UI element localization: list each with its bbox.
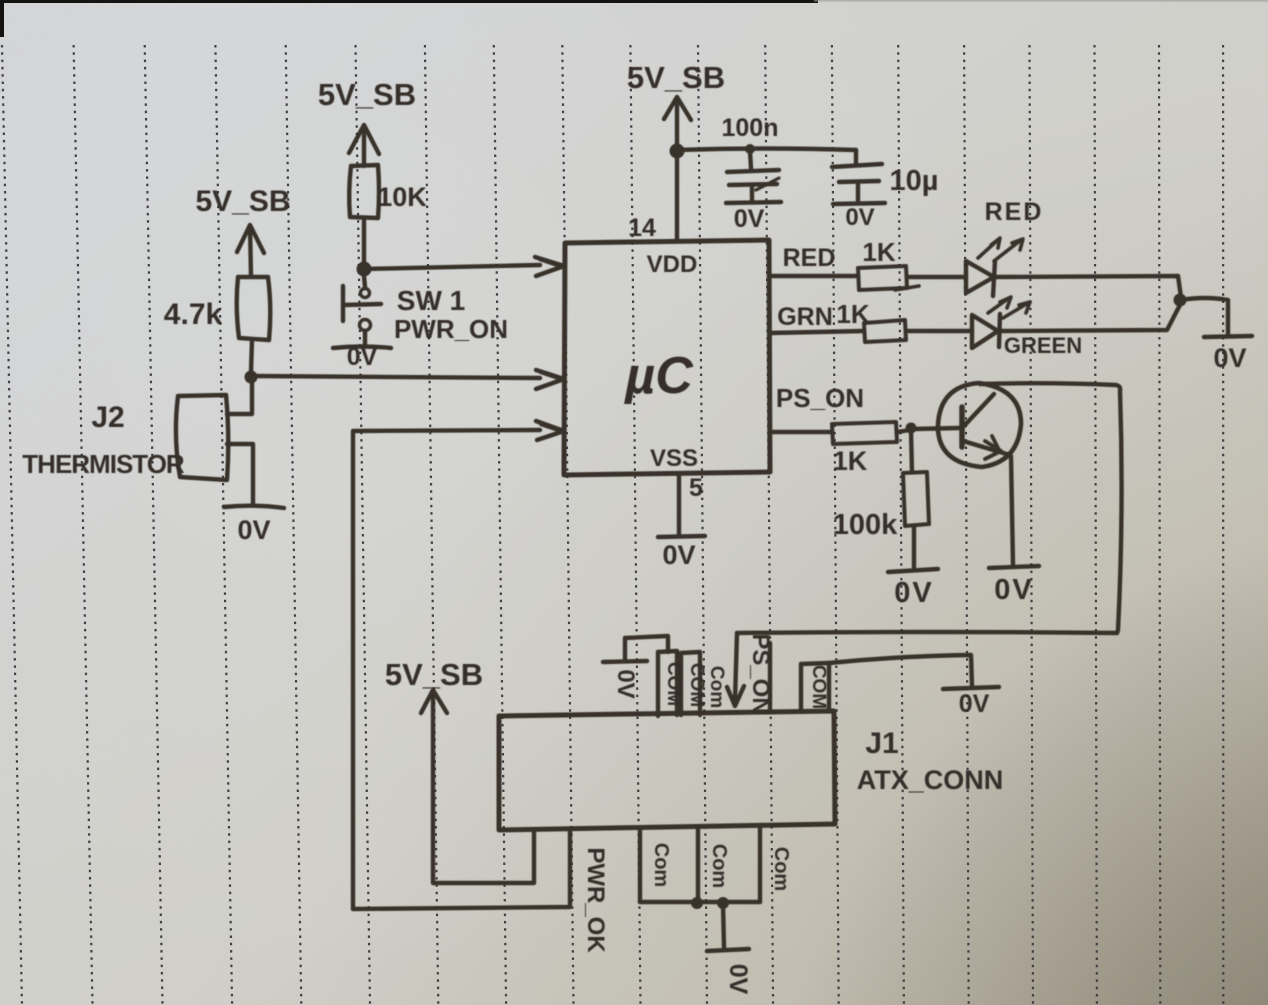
pin Com (J1 bottom, 3rd) — [758, 828, 762, 902]
capacitor C2 10u — [832, 150, 882, 201]
svg-text:0V: 0V — [724, 964, 752, 995]
pin COM (J1 top right) — [801, 663, 829, 712]
node C (VDD rail junction) — [670, 144, 685, 159]
wire uC PS_ON output to R3 — [770, 430, 832, 434]
resistor R4 100k — [903, 472, 929, 526]
pin COM (J1 top, 2nd) — [681, 652, 700, 715]
svg-text:Com: Com — [770, 847, 792, 891]
svg-text:GRN: GRN — [777, 303, 833, 331]
wire node F to Q1 base — [913, 428, 959, 429]
svg-text:SW 1: SW 1 — [397, 285, 465, 316]
wire joining bottom Com pins — [640, 900, 760, 904]
svg-text:1K: 1K — [836, 299, 869, 329]
pin PWR_OK and wire to uC input 3 — [353, 421, 570, 909]
resistor R 10K — [349, 165, 379, 218]
svg-text:RED: RED — [783, 244, 836, 272]
wire J1 top-right COM to ground — [829, 655, 972, 686]
LED D1 RED — [966, 238, 1023, 296]
svg-text:GREEN: GREEN — [1004, 333, 1082, 358]
svg-text:5V_SB: 5V_SB — [385, 657, 483, 692]
svg-text:4.7k: 4.7k — [164, 298, 223, 331]
ground 0V (bottom) — [707, 949, 749, 951]
svg-text:0V: 0V — [1213, 343, 1246, 373]
power symbol 5V_SB (left, above 4.7k) — [237, 225, 264, 276]
svg-text:ATX_CONN: ATX_CONN — [857, 765, 1004, 795]
svg-text:RED: RED — [985, 198, 1044, 226]
wire R2 to LED D2 — [906, 329, 972, 333]
svg-text:1K: 1K — [862, 237, 895, 267]
ground 0V (10u) — [833, 203, 885, 204]
ground 0V (VSS) — [658, 536, 705, 537]
svg-text:Com: Com — [708, 844, 730, 888]
op-amp U1 uC box — [564, 240, 770, 475]
svg-text:COM: COM — [663, 662, 684, 706]
svg-text:5V_SB: 5V_SB — [627, 60, 725, 95]
LED D2 GREEN — [972, 297, 1030, 348]
wire VDD rail to caps — [677, 149, 856, 151]
pin COM (J1 top, 1st) — [658, 651, 677, 716]
wire node C down to uC pin 14 — [675, 151, 679, 241]
wire node H to bottom ground — [723, 903, 724, 947]
svg-text:10K: 10K — [377, 182, 427, 212]
ground 0V (100n) — [726, 202, 781, 203]
svg-text:0V: 0V — [237, 515, 270, 545]
svg-text:0V: 0V — [845, 204, 874, 231]
switch SW1 (pushbutton) — [343, 276, 381, 346]
svg-text:14: 14 — [628, 214, 656, 242]
svg-text:J1: J1 — [865, 727, 898, 760]
svg-text:0V: 0V — [612, 669, 639, 698]
svg-text:0V: 0V — [734, 205, 765, 233]
wire R4 to ground — [912, 526, 916, 568]
ground 0V (J2) — [224, 506, 284, 508]
ground 0V (emitter) — [989, 566, 1039, 568]
svg-text:0V: 0V — [959, 690, 990, 718]
svg-text:5V_SB: 5V_SB — [195, 185, 290, 218]
svg-text:5: 5 — [689, 474, 703, 502]
ground 0V (LED common) — [1204, 336, 1252, 337]
svg-text:0V: 0V — [994, 574, 1033, 606]
svg-text:100n: 100n — [722, 114, 779, 142]
wire R3 to node F — [897, 430, 910, 432]
svg-text:PWR_ON: PWR_ON — [394, 314, 508, 344]
svg-text:1K: 1K — [833, 446, 868, 476]
photo edge top bar — [0, 0, 1268, 37]
node D (100n tap) — [745, 144, 755, 154]
resistor R1 1K (RED) — [858, 266, 919, 290]
node A (thermistor / uC input junction) — [245, 371, 258, 384]
wire node A down to J2 pin 1 — [227, 382, 252, 414]
svg-text:PS_ON: PS_ON — [747, 633, 774, 714]
resistor R3 1K (PS_ON) — [832, 422, 897, 444]
pin PS_ON (J1 top) — [768, 643, 772, 712]
wire 10K bottom to node B — [362, 218, 366, 264]
resistor 4.7k — [237, 277, 271, 340]
svg-text:0V: 0V — [894, 577, 933, 609]
power symbol 5V_SB (top, VDD) — [664, 97, 691, 146]
ground 0V (SW1) — [333, 347, 391, 349]
wire uC GRN output to R2 — [770, 331, 864, 333]
wire Q1 collector to PS_ON pin of J1 — [727, 383, 1122, 706]
node H (bottom ground tap) — [717, 897, 729, 909]
svg-text:VSS: VSS — [650, 445, 698, 472]
svg-text:VDD: VDD — [647, 251, 698, 278]
wire 4.7k bottom to node — [251, 340, 252, 372]
wire LED D1 to right rail — [995, 276, 1181, 297]
svg-text:µC: µC — [623, 347, 694, 405]
wire uC pin 5 VSS to ground — [677, 475, 681, 534]
ground 0V (J1 pin 1) — [603, 636, 668, 662]
pin Com (J1 bottom, 1st) — [638, 829, 642, 902]
ground 0V (100k) — [888, 569, 938, 572]
svg-text:5V_SB: 5V_SB — [318, 77, 416, 112]
svg-text:COM: COM — [686, 663, 707, 707]
connector J1 ATX_CONN body — [499, 711, 835, 830]
pin Com (J1 bottom, 2nd) — [696, 829, 700, 902]
svg-text:J2: J2 — [91, 401, 124, 434]
svg-text:10µ: 10µ — [890, 165, 939, 197]
svg-text:0V: 0V — [662, 540, 695, 570]
power symbol 5V_SB (bottom) — [421, 690, 534, 883]
resistor R2 1K (GRN) — [864, 320, 906, 342]
svg-text:PS_ON: PS_ON — [776, 383, 864, 413]
connector J2 (thermistor) body — [176, 395, 228, 480]
node E (LED common) — [1174, 294, 1187, 307]
wire LED D2 to right rail — [1000, 303, 1181, 331]
wire Q1 emitter to ground — [1011, 456, 1013, 565]
power symbol 5V_SB (SW1 branch, above 10K) — [349, 125, 379, 166]
node B (SW1 / uC input junction) — [357, 262, 372, 277]
svg-text:Com: Com — [650, 843, 672, 887]
wire R1 to LED D1 — [907, 275, 966, 279]
node G (bottom Com junction) — [691, 897, 703, 909]
transistor Q1 (NPN) — [938, 383, 1021, 467]
svg-text:PWR_OK: PWR_OK — [582, 847, 609, 953]
svg-text:COM: COM — [808, 665, 829, 709]
node F (base / 100k junction) — [906, 423, 917, 434]
svg-text:100k: 100k — [833, 509, 898, 541]
wire node E to ground — [1181, 298, 1228, 334]
wire node F down to R4 — [911, 430, 912, 472]
wire uC RED output to R1 — [770, 274, 858, 278]
wire node B to uC input 1 with arrowhead — [364, 257, 564, 276]
wire node A to uC input 2 with arrowhead — [251, 370, 564, 389]
capacitor C1 100n — [727, 151, 779, 201]
svg-text:THERMISTOR: THERMISTOR — [22, 449, 185, 479]
svg-text:0V: 0V — [347, 343, 378, 371]
wire J2 pin 2 to ground — [227, 444, 253, 504]
svg-text:Com: Com — [706, 666, 727, 708]
ground 0V (J1 top right) — [943, 687, 999, 689]
